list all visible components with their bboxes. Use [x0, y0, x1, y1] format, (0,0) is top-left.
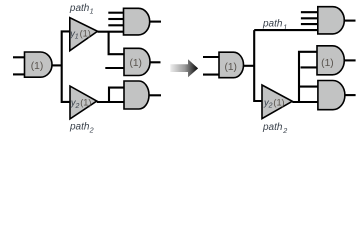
svg-text:(1): (1): [321, 58, 333, 69]
wire: top gate free input stub 3: [108, 24, 124, 26]
arrow: [170, 59, 198, 77]
AND gate top-right (4-input): [318, 7, 344, 34]
wire: right G1 input stub A: [203, 56, 220, 58]
label path1 (left): [69, 3, 94, 16]
wire: right middle gate free input stub: [301, 66, 318, 68]
wire: right top gate free input stub 2: [301, 17, 318, 19]
svg-text:(1): (1): [273, 97, 284, 107]
wire: path1 long wire to top gate 4th input: [254, 29, 318, 31]
buffer y2 (1) left: [70, 86, 97, 119]
svg-text:1: 1: [75, 34, 79, 41]
svg-text:(1): (1): [80, 28, 91, 38]
AND gate bottom-right: [318, 81, 345, 110]
wire: right top gate output stub: [344, 20, 355, 22]
wire: y2 output to bottom gate bottom input (right): [292, 101, 318, 103]
buffer y2 (1) right: [262, 85, 292, 119]
AND gate right G1 (1): [219, 52, 244, 77]
wire: vertical split up to y1, down to y2: [62, 31, 71, 102]
AND gate middle-left (1): [124, 48, 150, 75]
svg-text:2: 2: [282, 126, 287, 135]
label path1 (right): [262, 19, 287, 32]
svg-text:(1): (1): [129, 58, 141, 69]
svg-text:path: path: [69, 122, 90, 133]
svg-text:(1): (1): [224, 62, 236, 73]
wire: right top gate free input stub 3: [301, 23, 318, 25]
svg-text:1: 1: [90, 7, 94, 16]
wire: branch up from y2 output to middle gate top input (right): [299, 52, 317, 102]
AND gate top-left (4-input): [124, 8, 150, 35]
label path2 (right): [262, 122, 287, 135]
wire: branch down from y1 output to middle gate top input: [109, 32, 125, 55]
wire: branch to bottom gate top input (right): [299, 86, 318, 88]
wire: right G1 input stub B: [203, 74, 220, 76]
svg-text:(1): (1): [80, 98, 91, 108]
wire: G1 input stub B: [13, 73, 26, 75]
wire: y2 output to bottom gate bottom input: [97, 101, 124, 103]
wire: top gate free input stub 1: [108, 12, 124, 14]
wire: G1 input stub A: [13, 56, 26, 58]
svg-text:path: path: [69, 3, 90, 14]
AND gate bottom-left: [124, 81, 149, 109]
AND gate middle-right (1): [317, 46, 344, 75]
wire: middle gate free input stub: [105, 67, 124, 69]
wire: bottom gate output stub: [149, 94, 161, 96]
svg-text:(1): (1): [31, 61, 43, 72]
wire: branch up from y2 output to bottom gate top input: [109, 88, 124, 102]
wire: y1 output to top gate 4th input: [98, 31, 125, 33]
svg-text:path: path: [262, 122, 283, 133]
label path2 (left): [69, 122, 94, 135]
wire: right top gate free input stub 1: [301, 11, 318, 13]
wire: vertical split, up to path1 wire, down to y2 buffer input: [254, 30, 262, 101]
AND gate G1 (1): [25, 52, 53, 77]
wire: middle gate output stub: [150, 61, 161, 63]
wire: right bottom gate output stub: [345, 94, 356, 96]
wire: top gate free input stub 2: [108, 18, 124, 20]
buffer y1 (1): [69, 18, 97, 51]
wire: right middle gate output stub: [344, 59, 355, 61]
wire: G1 output to split node: [52, 64, 62, 66]
svg-text:2: 2: [75, 103, 80, 110]
svg-text:2: 2: [89, 125, 94, 134]
wire: top gate output stub: [150, 21, 161, 23]
svg-text:2: 2: [268, 103, 273, 110]
svg-text:path: path: [262, 19, 283, 30]
wire: right G1 output to split node: [244, 65, 255, 67]
